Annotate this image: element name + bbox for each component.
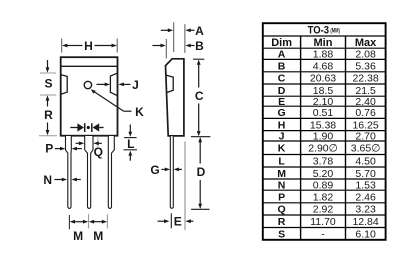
diode symbol lead left xyxy=(70,127,77,129)
svg-text:5.70: 5.70 xyxy=(355,168,376,180)
svg-text:2.46: 2.46 xyxy=(355,191,376,203)
tick M pin1 center xyxy=(68,215,70,229)
arrow P right xyxy=(55,147,66,151)
arrow J outer xyxy=(118,83,130,87)
svg-text:B: B xyxy=(278,61,286,73)
svg-text:3.78: 3.78 xyxy=(313,156,334,168)
svg-text:C: C xyxy=(195,89,204,103)
svg-text:S: S xyxy=(278,228,285,240)
svg-text:Min: Min xyxy=(314,37,333,49)
arrow L up xyxy=(128,151,132,161)
svg-text:K: K xyxy=(135,105,144,119)
svg-text:N: N xyxy=(278,179,286,191)
svg-text:M: M xyxy=(277,168,286,180)
package body side profile xyxy=(166,59,184,136)
dimension H arrows xyxy=(62,44,117,48)
arrow L down xyxy=(128,125,132,137)
svg-text:(MM): (MM) xyxy=(330,29,339,35)
svg-text:1.53: 1.53 xyxy=(355,179,376,191)
svg-text:20.63: 20.63 xyxy=(310,73,336,85)
diode symbol lead right xyxy=(99,127,103,129)
pin 2 xyxy=(85,136,93,208)
svg-text:G: G xyxy=(278,107,286,119)
svg-text:M: M xyxy=(93,229,103,243)
extension line E reference xyxy=(184,142,186,231)
svg-text:H: H xyxy=(278,119,286,131)
arrow E right xyxy=(158,219,170,223)
svg-text:15.38: 15.38 xyxy=(310,119,336,131)
svg-text:C: C xyxy=(278,73,286,85)
arrow Q left xyxy=(93,141,101,145)
svg-text:A: A xyxy=(195,24,204,38)
svg-text:16.25: 16.25 xyxy=(352,119,378,131)
tick D bottom xyxy=(191,208,209,210)
svg-text:0.51: 0.51 xyxy=(313,107,334,119)
arrow B left xyxy=(185,44,194,48)
svg-text:P: P xyxy=(45,142,53,156)
tick Q xyxy=(97,138,99,147)
right side notch tab xyxy=(110,73,117,95)
pin 3 xyxy=(108,136,114,208)
tick S top xyxy=(40,72,56,74)
svg-text:2.40: 2.40 xyxy=(355,96,376,108)
tick E leg center xyxy=(170,213,172,228)
arrow B right xyxy=(152,44,165,48)
tick L top xyxy=(124,137,137,139)
extension line AB right xyxy=(184,24,186,53)
tick L bottom xyxy=(124,149,138,151)
svg-text:1.82: 1.82 xyxy=(313,191,334,203)
svg-text:P: P xyxy=(278,191,285,203)
svg-text:E: E xyxy=(174,215,182,229)
svg-text:-: - xyxy=(321,228,325,240)
dimension H end bars xyxy=(62,39,117,53)
diode D2 cathode bar xyxy=(91,123,93,132)
arrow G left xyxy=(174,168,182,172)
left side notch tab xyxy=(61,75,67,94)
leader K xyxy=(91,89,132,111)
table outer border xyxy=(263,23,386,240)
side notch tab bump xyxy=(166,75,173,92)
svg-text:R: R xyxy=(278,216,286,228)
arrow M span 2 xyxy=(89,220,107,224)
side leg pin xyxy=(170,136,173,208)
mounting hole K xyxy=(84,81,91,88)
arrow N right xyxy=(55,178,68,182)
svg-text:A: A xyxy=(278,49,286,61)
dimension C line and arrows xyxy=(197,60,201,137)
arrow R up xyxy=(46,95,50,106)
svg-text:3.65∅: 3.65∅ xyxy=(351,143,381,155)
svg-text:R: R xyxy=(44,108,53,122)
dimension D line and arrows xyxy=(198,137,202,209)
tick C bottom D top xyxy=(191,136,211,138)
arrow Q right xyxy=(76,141,85,145)
svg-text:4.68: 4.68 xyxy=(313,61,334,73)
arrow A left xyxy=(185,28,194,32)
svg-text:2.08: 2.08 xyxy=(355,49,376,61)
tick M pin2 center xyxy=(88,214,90,228)
svg-text:22.38: 22.38 xyxy=(352,73,378,85)
svg-text:2.70: 2.70 xyxy=(355,131,376,143)
svg-text:3.23: 3.23 xyxy=(355,204,376,216)
arrow N left xyxy=(72,178,81,182)
arrow M span 1 xyxy=(70,220,89,224)
arrow G right xyxy=(162,168,171,172)
body cap line xyxy=(61,65,117,67)
svg-text:D: D xyxy=(197,165,206,179)
svg-text:4.50: 4.50 xyxy=(355,156,376,168)
arrow J inner xyxy=(97,83,111,87)
svg-text:0.89: 0.89 xyxy=(313,179,334,191)
svg-text:H: H xyxy=(84,39,93,53)
svg-text:2.10: 2.10 xyxy=(313,96,334,108)
svg-text:J: J xyxy=(279,131,285,143)
svg-text:5.36: 5.36 xyxy=(355,61,376,73)
arrow A right xyxy=(161,28,173,32)
tick R bottom xyxy=(39,135,57,137)
pin 1 xyxy=(66,136,72,208)
diode D1 cathode bar xyxy=(84,123,86,132)
svg-text:6.10: 6.10 xyxy=(355,228,376,240)
svg-text:J: J xyxy=(132,78,139,92)
svg-text:Q: Q xyxy=(94,145,103,159)
extension line A left xyxy=(173,22,175,52)
tick C top xyxy=(193,58,204,60)
svg-text:5.20: 5.20 xyxy=(313,168,334,180)
svg-text:L: L xyxy=(278,156,285,168)
svg-text:B: B xyxy=(195,39,204,53)
extension line B left xyxy=(165,39,167,58)
svg-text:G: G xyxy=(150,163,159,177)
arrow P left xyxy=(72,147,82,151)
table row lines xyxy=(263,36,386,228)
svg-text:Dim: Dim xyxy=(271,37,292,49)
svg-text:N: N xyxy=(43,173,52,187)
svg-text:M: M xyxy=(73,229,83,243)
table column lines xyxy=(301,36,346,240)
svg-text:Q: Q xyxy=(278,204,286,216)
diode D2 anode triangle xyxy=(93,123,100,131)
svg-text:2.90∅: 2.90∅ xyxy=(308,143,338,155)
tick S bottom xyxy=(40,94,56,96)
svg-text:12.84: 12.84 xyxy=(352,216,378,228)
svg-text:Max: Max xyxy=(355,37,377,49)
center dot junction xyxy=(87,126,90,129)
svg-text:1.90: 1.90 xyxy=(313,131,334,143)
svg-text:0.76: 0.76 xyxy=(355,107,376,119)
svg-text:11.70: 11.70 xyxy=(310,216,336,228)
arrow E left xyxy=(186,219,194,223)
tick M pin3 center xyxy=(106,214,108,228)
svg-text:1.88: 1.88 xyxy=(313,49,334,61)
arrow R down xyxy=(46,123,50,136)
svg-text:S: S xyxy=(44,77,52,91)
diode D1 anode triangle xyxy=(77,123,84,131)
svg-text:2.92: 2.92 xyxy=(313,204,334,216)
svg-text:L: L xyxy=(127,137,134,151)
svg-text:E: E xyxy=(278,96,285,108)
svg-text:K: K xyxy=(278,143,286,155)
arrow S down xyxy=(46,60,50,73)
svg-text:TO-3: TO-3 xyxy=(308,24,330,36)
package body front xyxy=(61,57,118,136)
